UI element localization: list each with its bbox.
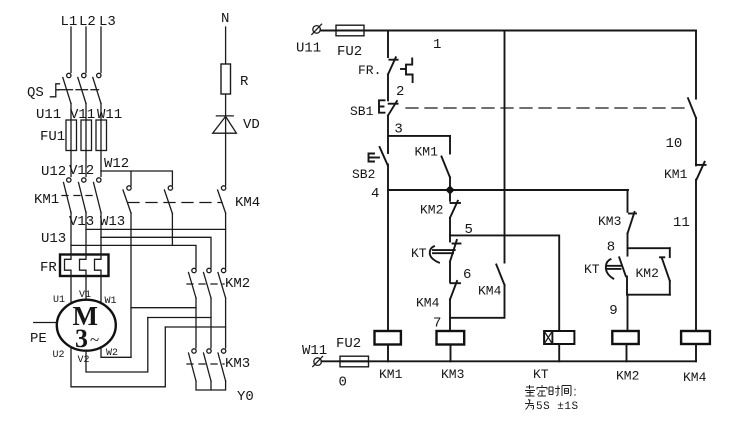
terminal W11 <box>313 356 323 366</box>
QS label <box>27 85 44 101</box>
wire node9 to KM2 coil <box>627 295 629 331</box>
FR. label <box>358 63 381 78</box>
svg-text:5S ±1S: 5S ±1S <box>536 401 579 413</box>
contactor KM1 pole 1 <box>64 178 72 213</box>
KM4 linkage dashes <box>128 202 222 204</box>
fuse FU1 pole 2 <box>81 120 92 151</box>
svg-text:L1: L1 <box>61 14 78 30</box>
contact 10 (SB1 linked NO) <box>688 98 696 165</box>
svg-text:6: 6 <box>463 267 471 283</box>
svg-text:FR.: FR. <box>358 63 381 78</box>
coil KM2 <box>612 331 638 361</box>
node 5 wire to KT coil branch <box>450 235 559 331</box>
timing note line 1 (hand-drawn hanzi: 整定时间:) <box>525 385 576 396</box>
wire W2 routing <box>101 347 131 358</box>
fuse FU1 pole 1 <box>66 120 77 151</box>
node L2 <box>79 14 96 30</box>
KM1 aux label <box>415 145 439 160</box>
node 0 <box>339 375 347 391</box>
wire V1 to motor <box>85 276 87 300</box>
node 4 <box>371 186 379 202</box>
svg-text:1: 1 <box>433 37 441 53</box>
fuse FU2 top <box>336 25 364 36</box>
wire KM2 pole3 down <box>225 298 227 348</box>
svg-text:7: 7 <box>433 316 441 332</box>
node U13 <box>41 231 66 247</box>
wire W pole to fuse <box>100 104 102 177</box>
FR label <box>40 260 57 276</box>
svg-text:W12: W12 <box>104 156 129 172</box>
contact KM1 NC (right) <box>696 162 706 331</box>
svg-text:PE: PE <box>30 331 47 347</box>
node W12 <box>104 156 129 172</box>
bottom bus wire <box>321 360 696 362</box>
KM4 label (main) <box>235 195 260 211</box>
wire V2 routing <box>86 318 148 373</box>
wire W12 branch to KM4 poles <box>101 171 172 186</box>
wire feeder to KM2 bottom left <box>131 307 196 309</box>
coil KM3 <box>437 331 465 361</box>
svg-text:Y0: Y0 <box>237 389 254 405</box>
FU1 label <box>40 129 65 145</box>
svg-text:KM2: KM2 <box>420 203 443 218</box>
wire V13 branch A <box>86 228 226 230</box>
svg-text:N: N <box>221 11 229 27</box>
KM2 linkage dashes <box>187 283 224 285</box>
svg-text:KT: KT <box>584 262 600 277</box>
svg-text:U11: U11 <box>36 107 61 123</box>
FR heater phase W <box>95 255 102 277</box>
node U11 <box>36 107 61 123</box>
Y0 star bar <box>196 381 226 390</box>
contactor KM2 pole 1 <box>189 268 197 298</box>
svg-text:KM3: KM3 <box>441 367 464 382</box>
wire node3 branch to KM1 aux <box>388 135 450 137</box>
junction node 4 dot <box>445 185 454 194</box>
pushbutton SB2 (NO) <box>369 147 388 165</box>
svg-text:KM1: KM1 <box>664 167 688 182</box>
wire KM4 pole1 output down <box>130 213 132 357</box>
FU2 label (bottom) <box>336 336 361 352</box>
wire V pole to fuse <box>85 104 87 177</box>
FU2 label (top) <box>337 44 362 60</box>
contact KM1 aux NO <box>442 136 451 190</box>
svg-text:~: ~ <box>90 330 99 349</box>
wire SB1 to node3/SB2 <box>387 116 389 154</box>
svg-text:KM2: KM2 <box>225 276 250 292</box>
svg-text:FU2: FU2 <box>337 44 362 60</box>
KM1 coil label <box>379 367 403 382</box>
wire node7 to KM3 coil <box>449 318 451 331</box>
resistor R <box>221 64 231 94</box>
svg-text:U1: U1 <box>53 295 65 306</box>
contactor KM1 pole 3 <box>94 178 102 213</box>
node 3 <box>394 122 402 138</box>
contactor KM4 main pole 1 <box>123 186 131 213</box>
contact KM4 aux NO (parallel) <box>450 31 505 318</box>
svg-text:10: 10 <box>666 136 683 152</box>
contactor KM3 pole 3 <box>218 349 226 381</box>
wire main branch from bus <box>387 31 389 58</box>
contactor KM1 pole 2 <box>79 178 87 213</box>
svg-text:SB1: SB1 <box>350 104 374 119</box>
KM2 NC label <box>420 203 443 218</box>
node W2 <box>106 348 118 359</box>
node U2 <box>53 350 65 361</box>
KM2 aux label <box>636 266 659 281</box>
wire U13 branch C <box>71 245 196 268</box>
contactor KM4 main pole 3 (brake branch) <box>218 186 226 213</box>
svg-text:KM1: KM1 <box>34 192 59 208</box>
KM4 NC label <box>416 296 440 311</box>
node 2 <box>396 84 404 100</box>
KM2 coil label <box>616 369 639 384</box>
node 9 <box>609 303 617 319</box>
wire U1 to motor <box>70 276 72 304</box>
svg-text:3: 3 <box>75 324 88 353</box>
svg-text:KM3: KM3 <box>225 356 250 372</box>
VD label <box>243 117 260 133</box>
switch QS pole 1 <box>63 73 71 103</box>
contact KM2 NC <box>450 190 460 235</box>
contact KT delayed (right) <box>606 248 628 295</box>
contact KM2 aux NO (parallel) <box>660 248 670 295</box>
FR heater phase U <box>65 255 72 277</box>
Y0 label <box>237 389 254 405</box>
wire U2 routing <box>71 327 165 387</box>
svg-text:FU1: FU1 <box>40 129 65 145</box>
contact KM4 NC <box>450 281 460 318</box>
svg-text:KM2: KM2 <box>636 266 659 281</box>
node 5 <box>465 222 473 238</box>
svg-text:W13: W13 <box>100 214 125 230</box>
svg-text:L2: L2 <box>79 14 96 30</box>
wire U pole to fuse <box>70 104 72 177</box>
svg-text:8: 8 <box>607 240 615 256</box>
wire L2 down <box>85 27 87 73</box>
svg-text:U13: U13 <box>41 231 66 247</box>
contactor KM3 pole 2 <box>204 349 212 381</box>
contact KT delayed NC <box>430 235 461 262</box>
node U1 <box>53 295 65 306</box>
svg-text:U11: U11 <box>296 41 321 57</box>
KM4 coil label <box>683 370 707 385</box>
SB2 label <box>352 167 375 182</box>
svg-text:V13: V13 <box>69 214 94 230</box>
svg-text:KM3: KM3 <box>598 214 621 229</box>
KT label (left) <box>411 246 427 261</box>
coil KM4 <box>681 331 710 361</box>
node V12 <box>69 163 94 179</box>
svg-text:4: 4 <box>371 186 379 202</box>
svg-text:SB2: SB2 <box>352 167 375 182</box>
svg-text:VD: VD <box>243 117 260 133</box>
contactor KM3 pole 1 <box>189 349 197 381</box>
coil KT with X box <box>544 331 574 361</box>
KM3 aux branch corner <box>627 190 629 212</box>
switch QS pole 3 <box>93 73 101 103</box>
svg-text:V12: V12 <box>69 163 94 179</box>
PE label <box>30 331 47 347</box>
FR paddle symbol <box>401 59 413 83</box>
svg-text:QS: QS <box>27 85 44 101</box>
svg-text:FR: FR <box>40 260 57 276</box>
wire W13 run <box>100 213 102 255</box>
node 6 <box>463 267 471 283</box>
wire L1 down <box>70 27 72 73</box>
KM3 aux label <box>598 214 621 229</box>
timing note line 2 (hand-drawn 为 + 5S±1S) <box>525 399 534 410</box>
svg-text:V2: V2 <box>78 355 90 366</box>
KM3 linkage dashes <box>187 363 224 365</box>
fuse FU1 pole 3 <box>96 120 107 151</box>
node 11 <box>673 215 690 231</box>
contact KM3 aux NO <box>628 212 637 248</box>
motor M 3~ <box>57 300 116 353</box>
pushbutton SB1 (NC) <box>379 100 398 115</box>
contactor KM2 pole 2 <box>204 268 212 298</box>
SB1 linkage dashed line <box>406 107 687 109</box>
wire KT to KM4 NC <box>449 262 451 282</box>
KM3 label (main) <box>225 356 250 372</box>
diode VD <box>213 116 237 133</box>
svg-text:W11: W11 <box>302 343 327 359</box>
svg-text:KM4: KM4 <box>683 370 707 385</box>
node W11 <box>97 107 122 123</box>
node N <box>221 11 229 27</box>
node V1 <box>79 290 91 301</box>
W11 label <box>302 343 327 359</box>
wire SB2 to node4 <box>387 165 389 191</box>
node 9 wire <box>628 294 670 296</box>
KM1 linkage dashes <box>62 195 98 197</box>
wire feeder to KM2 bottom mid <box>148 317 211 319</box>
node 1 <box>433 37 441 53</box>
svg-text:FU2: FU2 <box>336 336 361 352</box>
node U12 <box>41 164 66 180</box>
svg-text:2: 2 <box>396 84 404 100</box>
KM1 label <box>34 192 59 208</box>
KM2 label (main) <box>225 276 250 292</box>
U11 label (control) <box>296 41 321 57</box>
wire L3 down <box>100 27 102 73</box>
node 7 <box>433 316 441 332</box>
svg-text:R: R <box>240 74 249 90</box>
node 8 <box>607 240 615 256</box>
contactor KM2 pole 3 <box>218 268 226 298</box>
node L3 <box>99 14 116 30</box>
R label <box>240 74 249 90</box>
coil KM1 <box>375 331 401 361</box>
svg-text:U12: U12 <box>41 164 66 180</box>
contactor KM4 main pole 2 <box>164 186 172 214</box>
wire KM2 pole1 down <box>195 298 197 348</box>
svg-text:U2: U2 <box>53 350 65 361</box>
wire VD branch output down <box>225 213 227 268</box>
terminal U11 <box>312 24 322 34</box>
top bus wire <box>320 30 696 32</box>
node W13 <box>100 214 125 230</box>
svg-text:KM2: KM2 <box>616 369 639 384</box>
wire W1 to motor <box>100 276 102 304</box>
wire W13 branch B <box>101 237 211 268</box>
wire KM4 pole2 output down <box>171 214 173 246</box>
KM3 coil label <box>441 367 464 382</box>
wire feeder to KM2 bottom right <box>165 326 225 328</box>
node V11 <box>70 107 95 123</box>
KM1 NC label <box>664 167 688 182</box>
svg-text:KM1: KM1 <box>415 145 439 160</box>
wire N down <box>225 27 227 186</box>
svg-text:0: 0 <box>339 375 347 391</box>
svg-text:KT: KT <box>533 367 549 382</box>
wire U13 run <box>70 213 72 255</box>
node 4 bus wire <box>388 189 628 191</box>
right branch wire from bus <box>695 31 697 99</box>
thermal relay FR box <box>60 255 109 277</box>
SB1 label <box>350 104 374 119</box>
switch QS pole 2 <box>78 73 86 103</box>
node L1 <box>61 14 78 30</box>
node V13 <box>69 214 94 230</box>
FR heater phase V <box>80 255 87 277</box>
KM4 aux label <box>478 283 502 298</box>
QS linkage line <box>59 89 99 91</box>
wire FR to SB1 <box>387 74 389 100</box>
node W1 <box>105 296 117 307</box>
svg-text:11: 11 <box>673 215 690 231</box>
PE wire <box>34 322 57 324</box>
node 8 wire <box>628 247 670 249</box>
node 10 <box>666 136 683 152</box>
svg-text:KM4: KM4 <box>478 283 502 298</box>
node V2 <box>78 355 90 366</box>
svg-text:KM4: KM4 <box>235 195 260 211</box>
svg-text:KM1: KM1 <box>379 367 403 382</box>
svg-text:KM4: KM4 <box>416 296 440 311</box>
wire node4 down to KM1 coil <box>387 190 389 331</box>
fuse FU2 bottom <box>340 356 369 367</box>
wire V13 run <box>85 213 87 255</box>
KT coil label <box>533 367 549 382</box>
svg-text:9: 9 <box>609 303 617 319</box>
svg-text:KT: KT <box>411 246 427 261</box>
FR NC contact <box>388 57 398 74</box>
QS handle bracket <box>50 84 59 97</box>
wire KM2 pole2 down <box>210 298 212 348</box>
KT label (right) <box>584 262 600 277</box>
